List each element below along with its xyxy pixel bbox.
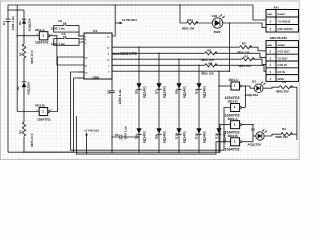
svg-text:DD1-C: DD1-C: [229, 78, 240, 82]
wire U1 left pin stubs: [78, 36, 84, 78]
svg-text:GND: GND: [93, 75, 101, 79]
svg-text:DB9 RS-232: DB9 RS-232: [270, 36, 287, 40]
svg-text:R4: R4: [282, 80, 286, 84]
svg-text:DD2-A: DD2-A: [228, 117, 239, 121]
resistor R4: [276, 80, 293, 93]
svg-text:кон: кон: [267, 12, 272, 16]
svg-text:14 PIN DD1: 14 PIN DD1: [122, 18, 138, 22]
svg-text:КД1401: КД1401: [142, 86, 146, 98]
svg-text:1554ТЛ2: 1554ТЛ2: [35, 41, 49, 45]
sheet border: [1, 1, 300, 160]
svg-text:C5: C5: [115, 133, 119, 137]
resistor R24: [182, 18, 198, 30]
wire LED to XS1 row3: [223, 23, 266, 28]
svg-text:0805 10K: 0805 10K: [182, 26, 196, 30]
LED D12 indicator: [212, 14, 225, 34]
logic gate DD1-D: [225, 100, 242, 118]
svg-text:D4: D4: [251, 127, 255, 131]
svg-text:R6: R6: [207, 48, 211, 52]
wire VCC bend to XS1 row2: [253, 5, 266, 20]
svg-text:R7: R7: [244, 55, 248, 59]
resistor R6: [201, 48, 217, 62]
IC U1 MAX3232: [84, 29, 112, 80]
svg-text:D5: D5: [134, 90, 138, 94]
capacitor C2: [51, 19, 85, 36]
svg-text:D9: D9: [174, 90, 178, 94]
svg-text:R24: R24: [187, 18, 193, 22]
svg-text:D2: D2: [16, 86, 20, 90]
svg-text:КД1401: КД1401: [202, 86, 206, 98]
svg-text:D12: D12: [194, 133, 198, 139]
wire R6 to XS2: [215, 53, 266, 57]
wire signal row 1: [112, 46, 239, 48]
resistor R3: [275, 127, 292, 139]
svg-text:АОД133А: АОД133А: [245, 93, 260, 97]
svg-text:D8: D8: [154, 135, 158, 139]
svg-text:1: 1: [42, 34, 44, 38]
svg-text:ХР1: ХР1: [274, 6, 280, 10]
svg-text:КД1401: КД1401: [162, 131, 166, 143]
svg-text:КД1401: КД1401: [142, 131, 146, 143]
svg-text:КД1401: КД1401: [162, 86, 166, 98]
svg-text:3529: 3529: [214, 30, 221, 34]
wire DD1-B input: [17, 111, 39, 113]
svg-text:R3: R3: [282, 127, 286, 131]
wire to D4: [253, 135, 256, 137]
wire R8 to XS2: [215, 65, 266, 71]
resistor R7: [238, 55, 254, 69]
wire signal row 3: [112, 58, 242, 60]
wire DD1-A input: [17, 35, 39, 37]
wire R4 to right bus: [290, 87, 297, 140]
svg-text:C1: C1: [2, 21, 6, 25]
svg-text:1206 1 мк: 1206 1 мк: [51, 42, 66, 46]
wire U1 pin12 return to DD2-A: [25, 78, 84, 152]
svg-text:0805 100: 0805 100: [201, 72, 214, 76]
diode column D13: [214, 70, 226, 153]
wire DD1-D output: [242, 107, 246, 109]
connector XS2: [266, 41, 299, 82]
svg-text:0805 10 К: 0805 10 К: [30, 133, 34, 147]
wire U1 pin9 return to DD1-D: [71, 72, 231, 150]
svg-text:1: 1: [234, 122, 236, 126]
svg-text:АОД133А: АОД133А: [28, 17, 32, 31]
wire R3 to right bus: [290, 133, 297, 135]
svg-text:1: 1: [234, 84, 236, 88]
svg-text:RXD RS232: RXD RS232: [278, 27, 294, 31]
svg-text:DD1-B: DD1-B: [35, 104, 45, 108]
svg-text:0805 300: 0805 300: [275, 135, 288, 139]
wire DD1-C output: [241, 85, 245, 87]
logic gate DD2-B: [225, 134, 242, 152]
svg-text:1554ТЛ2: 1554ТЛ2: [225, 148, 240, 152]
svg-text:1: 1: [234, 105, 236, 109]
svg-text:D11: D11: [194, 88, 198, 94]
wire DD1-B output to U1: [50, 57, 84, 112]
svg-text:D13: D13: [214, 133, 218, 139]
capacitor C4: [107, 79, 123, 153]
svg-text:ТХ RS232: ТХ RS232: [278, 20, 291, 24]
svg-text:1206 1 мк: 1206 1 мк: [11, 16, 15, 31]
svg-text:R5: R5: [242, 41, 246, 45]
connector XS1: [266, 6, 299, 32]
svg-text:КД1401: КД1401: [202, 131, 206, 143]
svg-text:C4: C4: [107, 90, 111, 94]
logic gate DD1-C: [225, 78, 242, 100]
svg-text:R2: R2: [19, 130, 23, 134]
wire DD2-B output: [242, 141, 253, 143]
svg-text:наим: наим: [278, 43, 285, 47]
svg-text:АОД133А: АОД133А: [27, 81, 31, 95]
svg-text:D38: D38: [212, 14, 218, 18]
svg-text:C2: C2: [58, 19, 62, 23]
svg-text:1: 1: [42, 109, 44, 113]
wire left signal column: [23, 36, 25, 153]
capacitor C5: [111, 126, 140, 140]
wire DD1-C input: [219, 85, 231, 87]
wire signal row 4: [112, 64, 205, 66]
wire gate outputs join: [244, 86, 246, 108]
svg-text:D1: D1: [18, 21, 22, 25]
node 14 PIN DD1 arrow: [115, 18, 137, 24]
wire signal row 5: [112, 70, 230, 72]
logic gate DD1-A: [35, 28, 53, 45]
resistor R5: [237, 41, 252, 54]
optocoupler LED D4: [247, 127, 266, 146]
svg-text:DD2-B: DD2-B: [228, 134, 239, 138]
svg-text:R1: R1: [19, 52, 23, 56]
svg-text:КД1401: КД1401: [182, 86, 186, 98]
svg-text:кон: кон: [267, 43, 272, 47]
logic gate DD2-A: [225, 117, 242, 135]
resistor R2: [19, 122, 35, 147]
capacitor C3: [51, 32, 85, 46]
svg-text:DD1-A: DD1-A: [35, 28, 45, 32]
svg-text:0805 300: 0805 300: [276, 89, 289, 93]
svg-text:RTS OUT: RTS OUT: [278, 50, 291, 54]
logic gate DD1-B: [35, 104, 52, 122]
svg-text:TX OUT: TX OUT: [278, 56, 289, 60]
wire R5 to XS2: [249, 47, 266, 51]
svg-text:1: 1: [234, 140, 236, 144]
wire D3 to R4: [263, 87, 279, 88]
capacitor C1: [2, 5, 15, 152]
wire C1/D1 tie: [8, 9, 24, 11]
wire LED junction drop to DD1-C: [229, 23, 231, 71]
svg-text:C3: C3: [62, 32, 66, 36]
svg-text:1206 1 мк: 1206 1 мк: [118, 89, 122, 104]
svg-text:D10: D10: [174, 133, 178, 139]
wire signal row 2: [112, 52, 205, 54]
optocoupler LED D3: [245, 80, 266, 97]
svg-text:наим: наим: [278, 12, 285, 16]
svg-text:0805 10 К: 0805 10 К: [30, 50, 34, 64]
svg-text:1206 1 мк: 1206 1 мк: [124, 126, 128, 140]
wire DD1-A output to U1: [50, 36, 84, 65]
diode column D5/D6: [134, 46, 146, 153]
wire lower return to DD2-B: [76, 116, 230, 154]
wire D4 to R3: [264, 134, 281, 136]
wire bottom GND bus: [8, 125, 231, 153]
wire R7 to XS2: [252, 59, 266, 64]
svg-text:RX IN: RX IN: [278, 70, 285, 74]
svg-text:D3: D3: [252, 80, 256, 84]
svg-text:0805 100: 0805 100: [238, 64, 251, 68]
wire top VCC bus: [8, 4, 253, 6]
svg-text:U1: U1: [93, 29, 97, 33]
svg-text:1206 1 мк: 1206 1 мк: [51, 27, 66, 31]
wire VCC drop to R24: [180, 5, 186, 23]
wire DD2-A output: [242, 124, 253, 126]
diode D1: [18, 10, 32, 36]
resistor R1: [19, 44, 34, 64]
wire left bus: [16, 5, 18, 112]
diode column D9/D10: [174, 58, 186, 153]
resistor R8: [201, 62, 217, 76]
svg-text:к7 PIN DD1: к7 PIN DD1: [85, 129, 100, 133]
svg-text:D7: D7: [154, 90, 158, 94]
wire DD2 outputs join: [252, 125, 254, 142]
wire R24 to LED: [196, 22, 213, 24]
wire U1 pin16 to VCC: [112, 5, 115, 36]
diode D2: [16, 81, 31, 95]
node left column top: [23, 35, 25, 37]
svg-text:R8: R8: [208, 62, 212, 66]
node к7 PIN DD1 arrow: [85, 129, 100, 154]
wire to D3: [245, 86, 254, 88]
diode column D11/D12: [194, 65, 206, 153]
svg-text:DTR IN: DTR IN: [278, 63, 287, 67]
svg-text:1554ТЛ2: 1554ТЛ2: [37, 118, 51, 122]
svg-text:DD1-D: DD1-D: [228, 100, 239, 104]
svg-text:АОД133А: АОД133А: [247, 142, 262, 146]
diode column D7/D8: [154, 53, 166, 153]
svg-text:КД1401: КД1401: [182, 131, 186, 143]
